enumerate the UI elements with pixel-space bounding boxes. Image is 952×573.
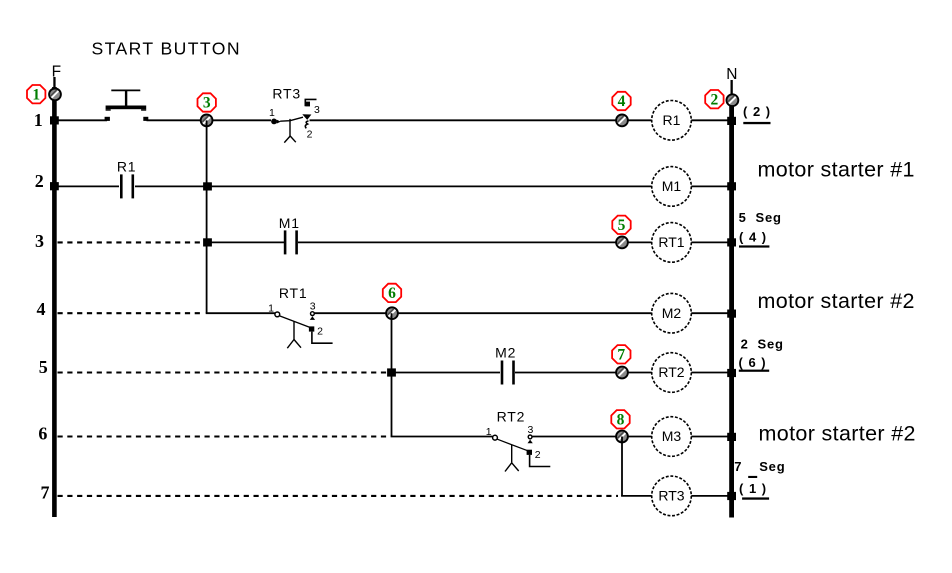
junction rung1 right rail — [727, 117, 736, 125]
coil R1 — [652, 101, 692, 141]
svg-text:M2: M2 — [662, 305, 682, 321]
wire rung4 branch corner to RT1 — [206, 312, 275, 314]
svg-text:3: 3 — [203, 95, 211, 112]
node 7 — [616, 367, 628, 379]
marker 4 octagon — [612, 92, 630, 110]
junction rung5 branch — [387, 368, 396, 376]
dashed wire rung7 — [58, 495, 619, 497]
wire rung3 branch to contact M1 — [208, 241, 285, 243]
wire rung7 corner to coil RT3 — [621, 495, 652, 497]
node 6 — [386, 307, 398, 319]
wire coilM3 to rail — [691, 436, 729, 438]
svg-text:motor starter #2: motor starter #2 — [759, 422, 916, 446]
node 5 — [616, 237, 628, 249]
svg-text:N: N — [726, 66, 737, 83]
svg-text:1: 1 — [269, 107, 275, 119]
dashed wire rung6 — [58, 435, 389, 437]
svg-text:RT3: RT3 — [272, 85, 301, 101]
wire rung6 branch corner to RT2 — [391, 436, 493, 438]
wire rung1 rail to button — [57, 119, 108, 121]
marker 6 octagon — [383, 284, 401, 302]
contact R1 (NO) — [117, 158, 137, 198]
svg-text:1: 1 — [486, 426, 492, 438]
svg-text:3: 3 — [314, 104, 320, 116]
svg-text:3: 3 — [527, 424, 533, 436]
svg-text:F: F — [52, 64, 61, 81]
svg-text:M3: M3 — [662, 428, 682, 444]
pushbutton S1 start — [105, 90, 149, 121]
wire RT1 pin3 to node6 and coil M2 — [314, 312, 652, 314]
junction rung7 right rail — [727, 492, 736, 500]
svg-text:Seg: Seg — [759, 459, 785, 474]
wire rung2 rail to contact R1 — [57, 185, 120, 187]
svg-text:RT2: RT2 — [658, 364, 684, 380]
svg-text:RT2: RT2 — [497, 409, 526, 425]
svg-text:6: 6 — [38, 424, 47, 444]
junction rung2 left rail — [50, 182, 59, 190]
wire rung3 contact to coil RT1 — [298, 241, 652, 243]
svg-text:motor starter #2: motor starter #2 — [758, 289, 915, 313]
svg-text:( 6 ): ( 6 ) — [739, 355, 767, 370]
svg-text:motor starter #1: motor starter #1 — [758, 158, 915, 182]
svg-text:1: 1 — [268, 303, 274, 315]
svg-text:2: 2 — [711, 91, 719, 108]
svg-text:M2: M2 — [495, 345, 516, 361]
svg-text:R1: R1 — [663, 112, 681, 128]
svg-text:6: 6 — [388, 285, 396, 302]
junction rung3 branch — [203, 238, 212, 246]
branch wire node8 down to rung7 — [621, 437, 623, 496]
node 8 — [616, 431, 628, 443]
contact M2 (NO) — [495, 345, 516, 385]
svg-text:2: 2 — [317, 326, 323, 338]
svg-text:2: 2 — [35, 171, 44, 191]
svg-text:START BUTTON: START BUTTON — [92, 39, 241, 59]
svg-text:3: 3 — [310, 301, 316, 313]
svg-text:7: 7 — [41, 482, 50, 502]
junction rung5 right rail — [727, 369, 736, 377]
coil M3 — [652, 417, 692, 457]
wire rung2 contact to coil M1 — [135, 185, 652, 187]
wire rung5 branch to contact M2 — [392, 372, 501, 374]
svg-text:2: 2 — [307, 128, 313, 140]
svg-text:Seg: Seg — [758, 337, 784, 352]
svg-text:Seg: Seg — [756, 210, 782, 225]
coil M2 — [652, 293, 692, 333]
node 1 — [49, 89, 61, 101]
marker 8 octagon — [611, 410, 629, 428]
coil M1 — [652, 167, 692, 207]
svg-text:5: 5 — [39, 357, 48, 377]
contact M1 (NO) — [279, 215, 300, 255]
wire button to node3 — [147, 119, 207, 121]
coil RT2 — [652, 353, 692, 393]
junction rung2 branch — [203, 182, 212, 190]
svg-text:M1: M1 — [279, 215, 300, 231]
node 4 — [616, 115, 628, 127]
svg-text:( 2 ): ( 2 ) — [743, 104, 771, 119]
wire rung5 contact to coil RT2 — [515, 372, 652, 374]
node 2 — [727, 94, 739, 106]
svg-text:RT3: RT3 — [658, 488, 684, 504]
dashed wire rung3 — [58, 241, 205, 243]
wire coilR1 to rail — [691, 119, 729, 121]
wire RT3 to node4 — [310, 119, 652, 121]
timed contact RT3 (closed) — [269, 85, 320, 142]
svg-text:M1: M1 — [662, 178, 682, 194]
svg-text:2: 2 — [741, 337, 748, 352]
svg-text:RT1: RT1 — [279, 285, 308, 301]
svg-text:2: 2 — [535, 449, 541, 461]
junction rung2 right rail — [727, 182, 736, 190]
coil RT3 — [652, 476, 692, 516]
marker 2 octagon — [705, 90, 723, 108]
junction rung4 right rail — [727, 310, 736, 318]
wire coilRT3 to rail — [691, 495, 729, 497]
svg-text:( 4 ): ( 4 ) — [739, 229, 767, 244]
svg-text:R1: R1 — [117, 158, 137, 174]
coil RT1 — [652, 223, 692, 263]
svg-text:5: 5 — [739, 210, 746, 225]
svg-text:7: 7 — [734, 459, 741, 474]
timed contact RT1 (open) — [268, 285, 333, 348]
wire node3 to RT3 — [207, 119, 271, 121]
svg-text:4: 4 — [618, 93, 626, 110]
wire coilM2 to rail — [691, 312, 729, 314]
dashed wire rung5 — [58, 371, 389, 373]
wire coilM1 to rail — [691, 185, 729, 187]
svg-text:( 1 ): ( 1 ) — [739, 481, 767, 496]
svg-text:5: 5 — [618, 217, 626, 234]
wire coilRT1 to rail — [691, 241, 729, 243]
svg-text:1: 1 — [32, 86, 40, 103]
node 3 — [201, 115, 213, 127]
wire coilRT2 to rail — [691, 372, 729, 374]
junction rung6 right rail — [727, 433, 736, 441]
marker 1 octagon — [27, 85, 45, 103]
right rail N — [729, 80, 734, 518]
marker 5 octagon — [612, 216, 630, 234]
dashed wire rung4 — [58, 312, 205, 314]
svg-text:1: 1 — [34, 110, 43, 130]
svg-text:4: 4 — [37, 299, 46, 319]
svg-text:RT1: RT1 — [658, 234, 684, 250]
branch wire node6 down to rung6 — [391, 313, 393, 436]
left rail F — [52, 77, 57, 517]
branch wire node3 down to rung4 — [206, 120, 208, 313]
svg-text:3: 3 — [35, 231, 44, 251]
marker 7 octagon — [612, 345, 630, 363]
timed contact RT2 (open) — [486, 409, 551, 472]
svg-text:7: 7 — [617, 347, 625, 364]
junction rung3 right rail — [727, 238, 736, 246]
svg-text:8: 8 — [617, 412, 625, 429]
marker 3 octagon — [198, 93, 216, 111]
junction rung1 left rail — [50, 116, 59, 124]
wire RT2 pin3 to node8 and coil M3 — [532, 436, 652, 438]
